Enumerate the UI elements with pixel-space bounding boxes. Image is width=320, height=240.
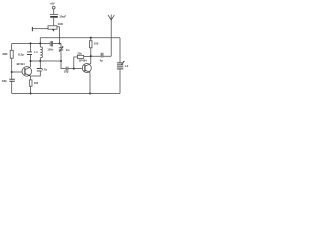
wire Q1 base <box>12 71 23 73</box>
wire 10p to Q2 base <box>68 68 82 70</box>
capacitor 10uF (electrolytic) <box>50 14 58 16</box>
node bridge left <box>29 60 31 62</box>
wire 8.2p top to tank wire <box>30 43 32 52</box>
wire Q1 collector <box>30 55 32 67</box>
svg-text:33k: 33k <box>2 79 7 83</box>
wire bias resistor right leg <box>84 55 91 57</box>
node tank right end <box>58 42 60 44</box>
node Q2 collector junction <box>90 55 92 57</box>
svg-text:100n: 100n <box>47 47 53 51</box>
trimmer capacitor Cv <box>59 48 63 50</box>
potentiometer 10K body <box>48 26 57 29</box>
wire Q1 emitter down <box>30 76 32 94</box>
wire pot right down to tank node <box>59 27 61 44</box>
wire node B down and right to 10p <box>61 61 66 69</box>
svg-text:10p: 10p <box>64 69 69 73</box>
wire supply rail y38 <box>40 37 120 39</box>
capacitor 100n (series, tank top) <box>49 41 51 46</box>
capacitor 4.7p (series to emitter) <box>37 69 42 71</box>
wire ground rail <box>12 93 120 95</box>
wire right rail down <box>119 38 121 94</box>
capacitor 8.2p (series in collector line) <box>27 52 32 55</box>
svg-text:22k: 22k <box>77 51 82 55</box>
svg-text:L2: L2 <box>125 64 129 68</box>
inductor L1 <box>40 43 42 61</box>
node L1 top <box>39 42 41 44</box>
wire collector bridge y61 <box>31 60 62 62</box>
wire Q2 emitter down <box>89 73 91 94</box>
node bridge mid (L1 bottom) <box>39 60 41 62</box>
wire output corner up to antenna line <box>110 20 112 56</box>
wire stub rail to tank-top <box>39 38 41 44</box>
node tank top x30.5 <box>29 42 31 44</box>
resistor 100 (Q2 collector) <box>90 41 93 48</box>
capacitor 4p (output coupling) <box>101 53 103 58</box>
wire tank top y43.4 <box>12 42 60 44</box>
wire 4.7p to Q1 emitter <box>30 71 40 76</box>
node bridge right (trimmer bottom) <box>60 60 62 62</box>
wire trimmer top stub <box>60 44 62 48</box>
wire pot left lead <box>33 28 48 30</box>
resistor 22k (Q2 bias) <box>77 55 83 58</box>
node Q2 emitter ground <box>89 92 91 94</box>
node rail junction <box>90 37 92 39</box>
svg-text:4p: 4p <box>100 58 103 62</box>
svg-text:10K: 10K <box>58 22 64 26</box>
node emitter ground <box>30 92 32 94</box>
svg-text:L1: L1 <box>34 50 38 54</box>
antenna <box>108 15 114 21</box>
svg-text:BF494: BF494 <box>17 62 26 66</box>
svg-text:10uF: 10uF <box>59 15 66 19</box>
resistor 33K <box>10 50 13 58</box>
transistor Q1 BF494 <box>22 67 32 77</box>
capacitor 33k (base-ground) <box>9 79 14 81</box>
resistor 100 (Q1 emitter) <box>29 80 32 86</box>
svg-text:4.7p: 4.7p <box>42 68 48 72</box>
wire left rail <box>11 43 13 93</box>
terminal bar (pot left lead end) <box>31 27 33 31</box>
wire pot right lead <box>57 26 60 28</box>
svg-text:100: 100 <box>34 81 39 85</box>
wire trimmer bottom <box>60 50 62 61</box>
wire terminal to C 10uF <box>53 9 55 14</box>
potentiometer wiper arrow <box>52 29 54 31</box>
node Q1 base junction <box>11 71 13 73</box>
inductor L2 (variable) <box>117 63 123 69</box>
wire output y56 <box>91 55 111 57</box>
transistor Q2 BF494 <box>82 64 91 73</box>
svg-text:8.2p: 8.2p <box>18 52 24 56</box>
svg-text:BF494: BF494 <box>79 58 88 62</box>
wire bias resistor left leg <box>74 57 78 69</box>
wire C 10uF to pot <box>53 18 55 26</box>
wire L1 bottom to 4.7p <box>39 61 41 68</box>
capacitor 10p (coupling to Q2 base) <box>66 67 68 71</box>
terminal +9V <box>52 6 55 9</box>
wire Q2 collector up <box>89 48 92 64</box>
node Q2 base / bias junction <box>73 68 75 70</box>
wire 100 top to rail <box>90 38 92 41</box>
svg-text:+9V: +9V <box>50 1 55 5</box>
svg-text:100: 100 <box>94 42 99 46</box>
svg-text:33K: 33K <box>2 52 8 56</box>
svg-text:Cv: Cv <box>66 48 70 52</box>
